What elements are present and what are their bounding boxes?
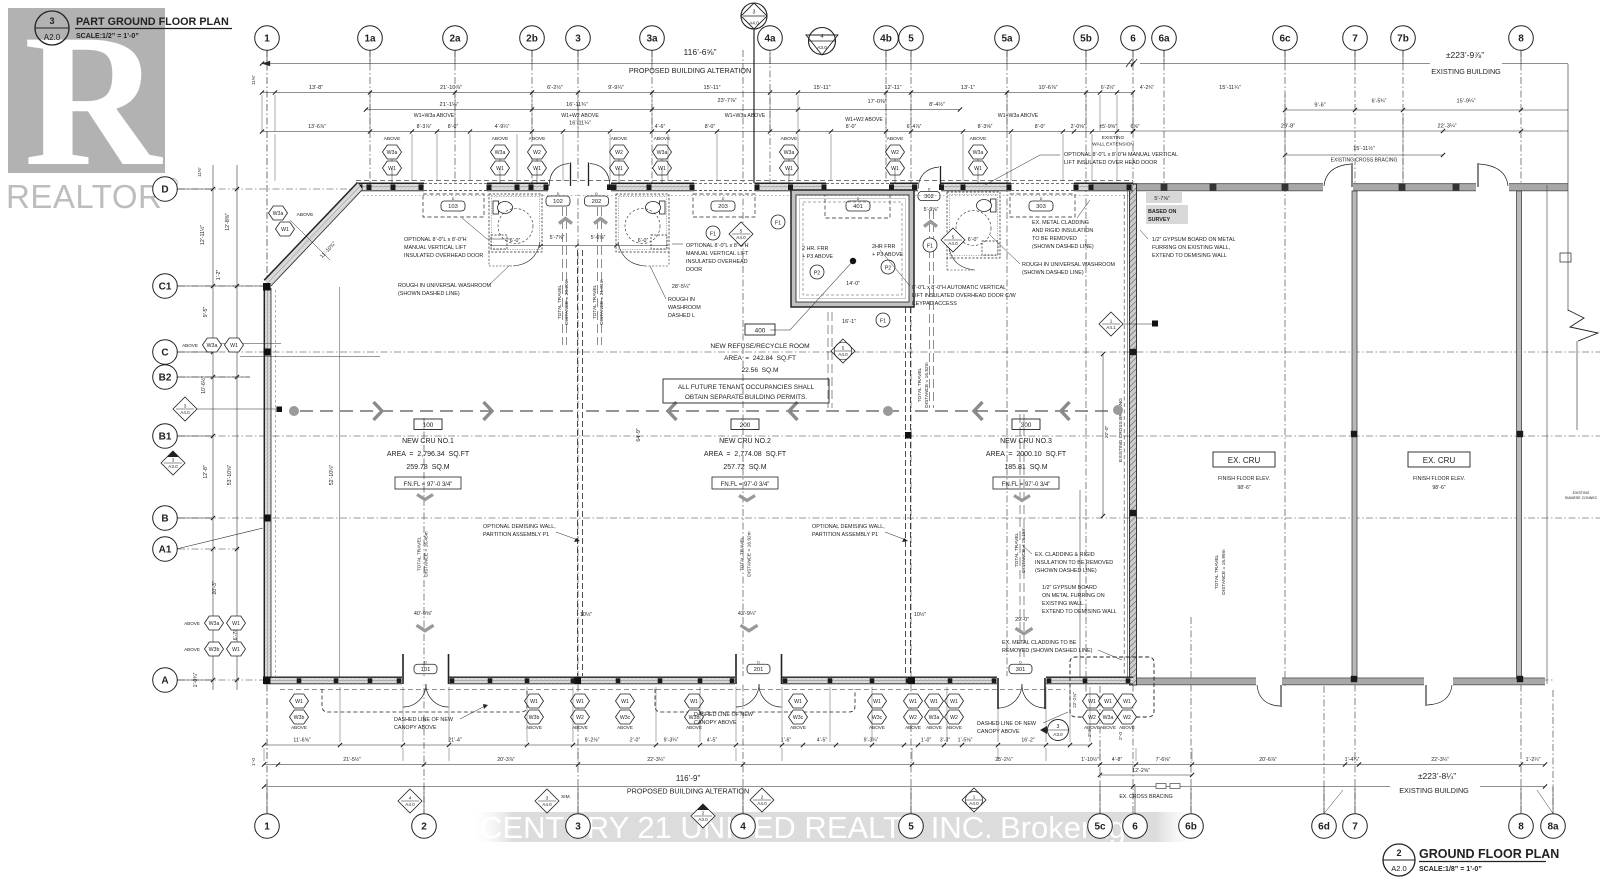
svg-text:16’-11¾”: 16’-11¾” [566,102,588,108]
vestibule doors at grid 3 opening [548,182,611,192]
svg-text:64’-9”: 64’-9” [636,428,642,442]
grid bubble 3 top [566,26,591,51]
svg-text:21’-10⅞”: 21’-10⅞” [440,85,462,91]
svg-text:17’-0⅜”: 17’-0⅜” [868,99,887,105]
svg-text:W1+W3a ABOVE: W1+W3a ABOVE [725,113,766,119]
hex tag stack bottom x580 [571,694,590,708]
svg-text:8: 8 [1518,34,1524,45]
svg-text:DASHED L: DASHED L [668,313,695,319]
grid bubble B2 [153,365,178,390]
svg-text:W3a: W3a [387,150,398,156]
svg-text:DISTANCE = 15.15m: DISTANCE = 15.15m [1021,527,1027,572]
existing top wall column squares [1161,184,1168,191]
svg-text:W3a: W3a [273,211,284,217]
grid bubble 1a top [358,26,383,51]
svg-text:NEW REFUSE/RECYCLE ROOM: NEW REFUSE/RECYCLE ROOM [710,343,809,350]
hex tag stack bottom x1092 [1083,694,1102,708]
grey node dot left [289,406,299,416]
svg-text:8’-4½”: 8’-4½” [929,101,945,108]
svg-text:D: D [757,660,760,664]
washroom rough-in CRU2 [616,194,669,252]
svg-text:±223’-9⅞”: ±223’-9⅞” [1446,50,1484,60]
ex cross bracing bottom dimension [1100,774,1192,776]
svg-text:1a: 1a [364,34,376,45]
svg-text:WALL EXTENSION: WALL EXTENSION [1092,142,1134,148]
svg-text:10½”: 10½” [580,611,592,618]
vestibule door leaf right [588,163,590,187]
svg-text:AREA = 2,774.08 SQ.FT: AREA = 2,774.08 SQ.FT [704,451,787,458]
grid bubble A1 [153,537,178,562]
svg-text:2b: 2b [526,34,538,45]
svg-text:A4.0: A4.0 [948,241,958,246]
top wall mullion squares [358,184,363,190]
svg-text:22’-3¼”: 22’-3¼” [1431,757,1449,763]
svg-text:ABOVE: ABOVE [617,725,633,730]
bottom wall column squares at grids [574,677,581,684]
hex tag stack bottom x913 [904,694,923,708]
svg-text:8a: 8a [1547,822,1559,833]
svg-text:A4.0: A4.0 [180,410,190,415]
svg-text:2a: 2a [449,34,461,45]
svg-text:W1: W1 [873,699,881,705]
svg-text:8: 8 [1518,822,1524,833]
svg-text:FN.FL = 97’-0 3/4”: FN.FL = 97’-0 3/4” [1002,482,1051,488]
hex tag stack bottom x625 [616,694,635,708]
svg-text:6’-0”: 6’-0” [968,237,979,243]
svg-text:EX. CRU: EX. CRU [1423,456,1456,465]
svg-text:+ P3 ABOVE: + P3 ABOVE [872,252,903,258]
svg-text:EX. CLADDING & RIGID: EX. CLADDING & RIGID [1035,552,1095,558]
svg-text:EX. METAL CLADDING: EX. METAL CLADDING [1032,220,1089,226]
existing siamese connection box [1560,253,1571,262]
svg-text:EX. CRU: EX. CRU [1228,456,1261,465]
svg-text:OPTIONAL DEMISING WALL,: OPTIONAL DEMISING WALL, [812,524,885,530]
svg-text:W3b: W3b [529,715,540,721]
svg-text:1’-2¼”: 1’-2¼” [1526,757,1541,763]
watermark REALTOR logo block [8,0,165,206]
grid line 4b vertical [885,50,887,188]
svg-text:9’-5”: 9’-5” [203,307,209,318]
svg-text:6’-5¾”: 6’-5¾” [1372,99,1387,105]
refuse room label block [745,324,775,335]
svg-text:ABOVE: ABOVE [790,725,806,730]
svg-text:W1: W1 [1104,699,1112,705]
svg-text:W2: W2 [615,150,623,156]
svg-text:A4.1: A4.1 [1106,325,1116,330]
svg-text:OPTIONAL 8’-0”L x 8’-0”H: OPTIONAL 8’-0”L x 8’-0”H [404,237,467,243]
svg-text:C1: C1 [159,282,172,293]
svg-text:DASHED LINE OF NEW: DASHED LINE OF NEW [977,721,1037,727]
section diamond 5/A4.0 CRU3 [941,228,965,252]
svg-text:116’-6⅝”: 116’-6⅝” [684,47,717,57]
svg-text:3: 3 [546,795,549,800]
room label 203 [711,201,735,211]
vestibule door leaf left [570,163,572,187]
svg-text:1: 1 [973,794,976,799]
existing top wall door 1 leaf and swing [1351,163,1353,187]
svg-text:12’-11”: 12’-11” [885,85,902,91]
section diamond 3/A3.0 left [161,451,185,475]
svg-text:257.72 SQ.M: 257.72 SQ.M [723,464,766,471]
svg-text:22’-2¼”: 22’-2¼” [1072,692,1077,708]
svg-text:ABOVE: ABOVE [182,343,198,348]
svg-text:6’-0”: 6’-0” [638,238,649,244]
grid bubble 6b bottom [1179,814,1204,839]
dimension row 3 top [366,109,960,111]
overhead door 303 dashed recess [1010,194,1075,217]
svg-text:A4.0: A4.0 [749,21,759,27]
svg-text:ABOVE: ABOVE [1119,725,1135,730]
svg-text:(SHOWN DASHED LINE): (SHOWN DASHED LINE) [1022,270,1084,276]
svg-text:MANUAL VERTICAL LIFT: MANUAL VERTICAL LIFT [404,245,467,251]
washroom rough-in CRU1 [489,194,542,252]
svg-text:5: 5 [952,234,955,239]
svg-text:A4.0: A4.0 [838,352,848,357]
svg-text:22’-3¼”: 22’-3¼” [1438,124,1457,130]
svg-text:1: 1 [1110,318,1113,323]
svg-text:9’-2⅛”: 9’-2⅛” [585,738,600,744]
svg-text:29’-0”: 29’-0” [1015,617,1029,623]
svg-text:Brokerage: Brokerage [1000,810,1143,845]
svg-text:W2: W2 [533,150,541,156]
svg-text:5’-9⅝”: 5’-9⅝” [924,207,939,213]
svg-text:4’-8”: 4’-8” [1112,757,1123,763]
svg-text:15’-11¼”: 15’-11¼” [1219,85,1241,91]
watermark CENTURY 21 band [0,0,1,1]
svg-text:TO BE REMOVED: TO BE REMOVED [1032,236,1077,242]
svg-text:ABOVE: ABOVE [526,725,542,730]
svg-text:TOTAL TRAVEL: TOTAL TRAVEL [917,367,923,402]
svg-text:5’-7⅝”: 5’-7⅝” [550,235,565,241]
grid bubble 8 top [1509,26,1534,51]
grid line 6a vertical [1163,50,1165,190]
svg-text:9’-3¼”: 9’-3¼” [664,738,679,744]
svg-text:3: 3 [753,10,756,16]
svg-text:ABOVE: ABOVE [905,725,921,730]
CRU2 entry door leaves and swings [735,654,737,684]
svg-text:EX. CROSS BRACING: EX. CROSS BRACING [1119,794,1172,800]
section marker 4/A3.0 top [809,28,836,55]
svg-text:ROUGH IN UNIVERSAL WASHROOM: ROUGH IN UNIVERSAL WASHROOM [1022,262,1116,268]
svg-text:W1: W1 [621,699,629,705]
svg-text:4’-9¼”: 4’-9¼” [495,124,510,130]
room label 201 [747,664,770,674]
interior vertical line from diagonal corner [339,287,341,677]
svg-text:13’-6⅞”: 13’-6⅞” [308,124,326,130]
svg-text:11’-6⅝”: 11’-6⅝” [293,738,310,744]
title bottom-right 2/A2.0 GROUND FLOOR PLAN [1383,844,1415,876]
svg-text:20’-6⅞”: 20’-6⅞” [1259,757,1277,763]
svg-text:303: 303 [1036,204,1046,210]
grid line 2a vertical [454,50,456,188]
bottom existing overall dimension [1133,786,1390,788]
left wall column square at B [264,515,271,522]
hex tag stack bottom x694 [685,694,704,708]
svg-text:1’-2”: 1’-2” [216,270,222,281]
svg-text:W1+W2 ABOVE: W1+W2 ABOVE [845,117,883,123]
grid bubble A [153,668,178,693]
room label 101 [414,664,437,674]
svg-text:A4.0: A4.0 [405,802,415,807]
grid line 4a vertical [769,30,771,188]
svg-text:FN.FL = 97’-0 3/4”: FN.FL = 97’-0 3/4” [721,482,770,488]
svg-text:W1: W1 [576,699,584,705]
grid bubble 5b top [1074,26,1099,51]
svg-text:11⅜”: 11⅜” [197,167,202,177]
grey node dot CRU2 [883,406,893,416]
svg-text:3: 3 [575,822,581,833]
svg-text:23’-7⅞”: 23’-7⅞” [718,98,737,104]
svg-text:8’-3⅝”: 8’-3⅝” [978,124,993,130]
ex cladding dashed line along demising wall [1123,195,1125,675]
svg-text:5a: 5a [1001,34,1013,45]
grid bubble 6 bottom [1123,814,1148,839]
svg-text:W1: W1 [230,343,238,349]
grid line 6 vertical [1132,50,1134,813]
svg-text:12’-8⅜”: 12’-8⅜” [225,213,231,231]
svg-text:14’-0”: 14’-0” [846,281,860,287]
svg-text:B2: B2 [159,373,172,384]
existing bottom wall door 2 leaf and swing [1425,685,1427,706]
svg-text:ABOVE: ABOVE [946,725,962,730]
svg-text:AND RIGID INSULATION: AND RIGID INSULATION [1032,228,1093,234]
grid line B2 horizontal [178,376,250,378]
grid line 7b vertical [1402,50,1404,190]
svg-text:10’-6⅞”: 10’-6⅞” [1039,85,1058,91]
svg-text:W1+W3a ABOVE: W1+W3a ABOVE [414,113,455,119]
svg-text:8’-0”: 8’-0” [705,124,716,130]
svg-text:259.78 SQ.M: 259.78 SQ.M [406,464,449,471]
grid line 6c vertical [1284,50,1286,686]
overall dimension row 116'-6 5/8" [262,63,1133,65]
svg-text:ABOVE: ABOVE [184,621,200,626]
storefront mullion squares [297,678,302,683]
grid bubble 5c bottom [1088,814,1113,839]
svg-text:PROPOSED BUILDING ALTERATION: PROPOSED BUILDING ALTERATION [627,787,749,796]
grid bubble 1 bottom [255,814,280,839]
svg-text:200: 200 [740,422,751,429]
svg-text:7’-6⅝”: 7’-6⅝” [1156,757,1171,763]
svg-text:6’-0”: 6’-0” [510,238,521,244]
svg-text:6’-2½”: 6’-2½” [547,84,563,91]
svg-text:EXTEND TO DEMISING WALL: EXTEND TO DEMISING WALL [1042,609,1117,615]
svg-text:ABOVE: ABOVE [887,136,905,142]
svg-text:LIFT INSULATED OVERHEAD DOOR C: LIFT INSULATED OVERHEAD DOOR C/W [912,293,1017,299]
grid line C1 horizontal [178,285,270,287]
grid bubble 6a top [1152,26,1177,51]
grid bubble B1 [153,424,178,449]
svg-text:W1: W1 [690,699,698,705]
svg-text:±5’-9⅝”: ±5’-9⅝” [1099,124,1117,130]
svg-text:EX. METAL CLADDING TO BE: EX. METAL CLADDING TO BE [1002,640,1077,646]
grid line 5a vertical [1006,50,1008,680]
svg-text:SIM.: SIM. [561,794,571,800]
svg-text:5: 5 [842,345,845,350]
svg-text:1/2” GYPSUM BOARD: 1/2” GYPSUM BOARD [1042,585,1097,591]
svg-text:ABOVE: ABOVE [611,136,629,142]
grid bubble C1 [153,274,178,299]
dimension row 4 top [262,131,1133,133]
svg-text:6⅝”: 6⅝” [1131,124,1140,130]
svg-text:ABOVE: ABOVE [291,725,307,730]
grid line 8a vertical bottom [1552,690,1554,813]
diagonal wall hex tags [269,206,288,220]
existing interior wall at grid 7 [1352,191,1357,679]
svg-text:1’-10½”: 1’-10½” [1081,756,1099,763]
room label 102 [546,196,570,206]
gypsum board furring line left of demising wall [1127,191,1129,677]
svg-text:W1: W1 [1123,699,1131,705]
grid line 5b vertical [1085,50,1087,700]
svg-text:BASED ON: BASED ON [1148,209,1177,215]
svg-text:W3b: W3b [294,715,305,721]
canopy dashed line along storefront [280,689,1065,691]
svg-text:5: 5 [908,34,914,45]
overhead door 103 dashed recess [423,194,484,217]
svg-text:4’-2¾”: 4’-2¾” [1140,85,1155,91]
grid line A horizontal [178,679,1553,681]
svg-text:TOTAL TRAVEL: TOTAL TRAVEL [557,284,563,319]
svg-text:OBTAIN SEPARATE BUILDING PERMI: OBTAIN SEPARATE BUILDING PERMITS. [685,394,807,401]
grid line A1 horizontal [178,548,240,550]
bubble 6d slanted leader [1324,790,1343,814]
svg-text:AREA = 2000.10 SQ.FT: AREA = 2000.10 SQ.FT [986,451,1067,458]
svg-text:ABOVE: ABOVE [654,136,672,142]
svg-text:4: 4 [740,822,746,833]
svg-text:A1: A1 [159,545,172,556]
svg-text:5: 5 [740,228,743,233]
svg-text:52’-10¼”: 52’-10¼” [329,464,335,485]
svg-text:ON METAL FURRING ON: ON METAL FURRING ON [1042,593,1105,599]
overhead door opening 401 refuse room [826,182,890,192]
svg-text:W2: W2 [909,715,917,721]
svg-text:3: 3 [575,34,581,45]
svg-text:W2: W2 [576,715,584,721]
svg-text:D: D [557,192,560,196]
grid line C horizontal [178,351,1600,353]
svg-text:9’-9¼”: 9’-9¼” [608,85,624,91]
svg-text:(SHOWN DASHED LINE): (SHOWN DASHED LINE) [1032,244,1094,250]
svg-text:W3a: W3a [207,343,218,349]
grid line 6b vertical bottom [1190,617,1192,813]
svg-text:1’-0: 1’-0 [251,758,257,766]
grid line 7 vertical [1354,50,1356,813]
F1 tag circles [771,215,785,229]
svg-text:F1: F1 [927,244,933,250]
svg-text:TOTAL TRAVEL: TOTAL TRAVEL [1214,554,1220,589]
svg-text:15’-11½”: 15’-11½” [1353,145,1375,152]
svg-text:6a: 6a [1158,34,1170,45]
svg-text:PROPOSED BUILDING ALTERATION: PROPOSED BUILDING ALTERATION [629,66,751,75]
left wall column square at C [264,349,271,356]
grid bubble 7 bottom [1343,814,1368,839]
svg-text:W1: W1 [930,699,938,705]
svg-text:3: 3 [184,403,187,408]
grid bubble 6 top [1121,26,1146,51]
svg-text:2 HR. FRR: 2 HR. FRR [802,246,828,252]
grid bubble 3 bottom [566,814,591,839]
svg-text:5’-6⅝”: 5’-6⅝” [591,235,606,241]
svg-text:GROUND FLOOR PLAN: GROUND FLOOR PLAN [1419,847,1559,861]
svg-text:2: 2 [1396,848,1401,858]
CRU3 entry door leaves and swings [997,678,999,709]
svg-text:W2: W2 [1088,715,1096,721]
svg-text:SIAMESE CONNEC: SIAMESE CONNEC [1565,496,1598,500]
right sheet edge line [1567,64,1569,311]
section diamond 3/A4.0 bottom [535,789,559,813]
svg-text:400: 400 [755,328,766,335]
extension lines storefront to bottom rows [339,687,341,742]
room label 302 [918,192,940,201]
exit chevrons vestibule grid 3 [559,219,572,224]
CRU3 route chevron mid [1014,496,1030,501]
grid line 2b vertical [531,50,533,188]
room label 202 [585,196,609,206]
svg-text:4: 4 [409,795,412,800]
svg-text:DISTANCE = 16.92m: DISTANCE = 16.92m [747,531,753,576]
grid line 2 vertical bottom [423,418,425,813]
svg-text:43’-9¼”: 43’-9¼” [738,611,756,617]
svg-text:D: D [424,660,427,664]
svg-text:D: D [161,185,168,196]
existing building right edge [1546,185,1548,684]
svg-text:DISTANCE = 16.99m: DISTANCE = 16.99m [1221,549,1227,594]
grid bubble 5 top [899,26,924,51]
grid line 5 vertical [910,50,912,813]
svg-text:W1+W2 ABOVE: W1+W2 ABOVE [561,113,599,119]
svg-text:W1: W1 [281,227,289,233]
bottom overall dimension row C [264,786,1133,788]
svg-text:15’-11”: 15’-11” [704,85,721,91]
canopy dashed outline CRU1 [322,689,527,712]
grid bubble 7b top [1391,26,1416,51]
svg-text:AREA = 242.84 SQ.FT: AREA = 242.84 SQ.FT [724,355,796,362]
svg-text:A4.0: A4.0 [736,235,746,240]
svg-text:3a: 3a [646,34,658,45]
svg-text:W3a: W3a [929,715,940,721]
refuse room centre dot [850,258,856,264]
svg-text:185.81 SQ.M: 185.81 SQ.M [1004,464,1047,471]
svg-text:W2: W2 [891,150,899,156]
svg-text:3’-3”: 3’-3” [940,738,951,744]
svg-text:16’-1”: 16’-1” [842,319,856,325]
svg-text:2: 2 [702,810,705,815]
svg-text:15’-9¼”: 15’-9¼” [1457,99,1476,105]
hex tag stack bottom x534 [525,694,544,708]
svg-text:SCALE:1/2” = 1’-0”: SCALE:1/2” = 1’-0” [76,33,139,40]
svg-text:LIFT INSULATED OVER HEAD DOOR: LIFT INSULATED OVER HEAD DOOR [1064,160,1157,166]
existing bottom wall door 1 leaf and swing [1280,685,1282,707]
svg-text:D: D [857,197,860,201]
svg-text:ROUGH IN: ROUGH IN [668,297,695,303]
overhead door 401 dashed recess [825,194,890,218]
CRU3 label block [1012,419,1040,430]
svg-text:10’-6½”: 10’-6½” [200,376,207,394]
new top wall band grid D [356,184,1133,191]
svg-text:1’-5⅛”: 1’-5⅛” [958,738,973,744]
existing bottom wall door opening 1 [1256,678,1282,686]
svg-text:EXTEND TO DEMISING WALL: EXTEND TO DEMISING WALL [1152,253,1227,259]
svg-text:OPTIONAL DEMISING WALL,: OPTIONAL DEMISING WALL, [483,524,556,530]
section diamond 5/A4.0 CRU2 [729,222,753,246]
grid line D horizontal [178,188,360,190]
CRU1 route chevron mid [417,495,433,500]
svg-text:DISTANCE = 21.01m: DISTANCE = 21.01m [599,279,605,324]
svg-text:D: D [595,192,598,196]
svg-text:101: 101 [421,667,431,673]
EX CRU label 1 [1213,452,1275,467]
left vertical dimension line 2 [236,165,238,690]
